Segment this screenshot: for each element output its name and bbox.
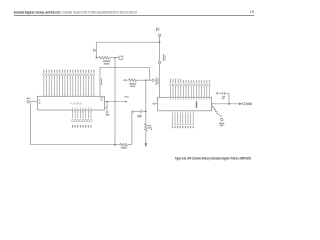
capacitor C2 stub under U300 pin A [105,102,108,111]
junction node [228,103,230,105]
off-page arrow connector [239,102,242,105]
U301 bottom pin array (9 leads with small circles and labels) [172,112,194,129]
C2 label [106,114,109,116]
IC U301 box [158,97,212,111]
net tap arrow on L1 drop [95,49,97,51]
R5 labels [219,123,224,125]
pin numbers inside U300 right edge [100,97,101,99]
svg-text:Schematic Diagrams, Overlays,: Schematic Diagrams, Overlays, and Parts … [14,10,137,14]
junction on bottom run [114,144,116,146]
U300 bottom pin array (8 leads with no-connect circles and labels) [71,107,92,127]
wire U301 pin A right [212,103,240,105]
junction node [125,101,127,103]
resistor R4 vertical on V3 [144,124,147,132]
U300 top pin array (20 leads: rotated labels, terminal circles, leads, pin numbers) [43,70,95,97]
junction node [145,111,147,113]
capacitor C1 row [132,110,146,112]
svg-text:FLASH ROM: FLASH ROM [71,101,82,105]
junction node V3 top [145,79,147,81]
C3 labels [222,96,225,98]
ground on V3 [145,143,147,147]
resistor R1 row [96,56,118,59]
junction node [96,57,98,59]
resistor R3 in bottom run [120,143,128,146]
svg-text:Figure 8-36. VHF Controller Me: Figure 8-36. VHF Controller Memory Schem… [175,156,251,160]
capacitor C3 in-line branch above [216,92,229,104]
net name label on L2 drop [101,78,102,85]
U301 top pin array (16 leads: rotated labels, terminal circles, leads, pin numbers) [169,79,210,100]
junction node on V1 [159,41,161,43]
arrow net label [246,103,252,106]
testpoint circle top of V1 [158,34,160,36]
connector J1 diamond on U300 left pin [27,100,38,103]
C1 label [137,115,141,117]
wire V1 VPP vertical [159,37,161,98]
wire VPP vertical V2 [114,58,116,145]
wire L1 left drop [95,42,97,58]
pin numbers inside U300 left edge [39,99,41,100]
junction node [106,101,108,103]
jumper pad JU1 [119,56,123,59]
V1 top label [156,27,157,31]
testpoint circle mid V1 [158,61,160,63]
VPP net label rotated [156,77,157,85]
wire riser from bottom run [131,111,133,144]
svg-text:8-53: 8-53 [250,10,254,14]
wire U300 pin A [105,101,127,103]
header rule [14,14,255,17]
bottom-left label [151,127,152,130]
testpoint circle [152,79,154,81]
R1 labels [103,60,111,62]
resistor R2 row [124,79,152,82]
rotated part number inside U301 [196,101,198,108]
R4 labels [148,125,151,127]
junction node on V2 [114,57,116,59]
wire V3 vertical [145,80,147,123]
wire L1 top horizontal [96,41,159,43]
net label near U300 pin A [124,96,129,98]
R3 value label [121,147,127,149]
left pin arrow of U301 [155,103,158,105]
resistor R5 diagonal from U301 pin B [212,105,219,114]
wire left loop down [30,103,131,145]
R2 labels [129,83,136,85]
IC U300 box FLASH ROM [38,96,105,110]
net tap label [93,49,94,52]
label right of mid testpoint [163,54,164,61]
wire L2 horizontal [100,67,150,96]
testpoint circle [221,118,223,120]
J1 label [26,98,30,100]
